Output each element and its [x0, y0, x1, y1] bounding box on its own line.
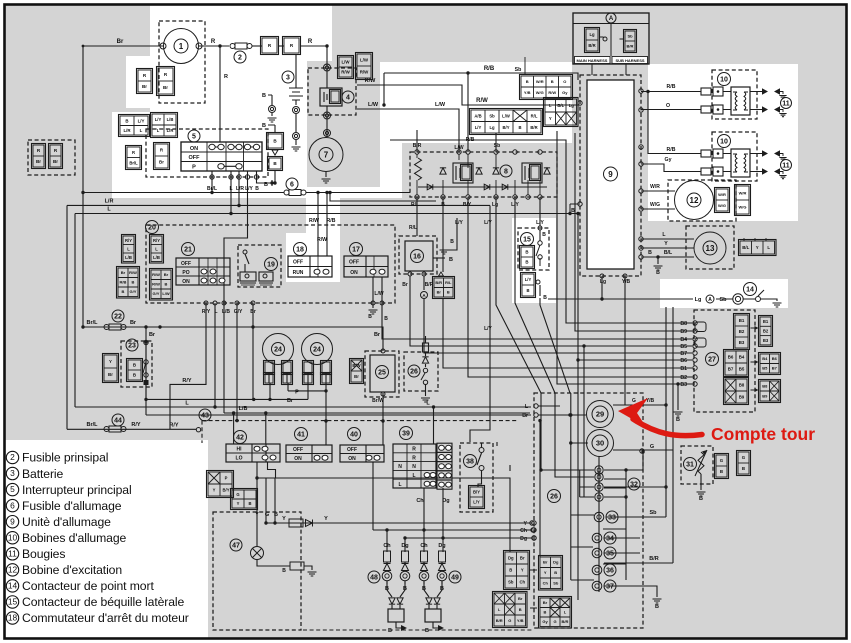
svg-text:L/Y: L/Y [455, 220, 463, 226]
svg-text:Bobine d'excitation: Bobine d'excitation [22, 563, 122, 577]
svg-text:5: 5 [10, 484, 15, 494]
svg-text:L/W: L/W [374, 291, 383, 297]
svg-text:OFF: OFF [347, 447, 357, 453]
svg-text:48: 48 [370, 575, 378, 582]
svg-text:L/Y: L/Y [473, 500, 480, 505]
svg-text:B: B [450, 239, 454, 245]
svg-text:B/L: B/L [664, 250, 673, 256]
svg-text:OFF: OFF [189, 155, 201, 161]
svg-text:B1: B1 [739, 318, 745, 323]
svg-text:Interrupteur principal: Interrupteur principal [22, 483, 132, 497]
svg-text:W/G: W/G [650, 202, 660, 208]
svg-text:L/B: L/B [167, 117, 174, 122]
svg-text:B4: B4 [762, 356, 768, 361]
svg-text:W/R: W/R [536, 79, 544, 84]
svg-text:Sb: Sb [515, 67, 522, 73]
svg-text:Lg: Lg [695, 297, 702, 303]
svg-text:R/W: R/W [476, 98, 488, 104]
svg-text:A: A [609, 16, 614, 22]
svg-text:Sb: Sb [553, 581, 559, 586]
svg-text:12: 12 [8, 564, 18, 574]
svg-text:B/R: B/R [649, 556, 659, 562]
svg-text:LO: LO [236, 456, 243, 462]
svg-text:Br/L: Br/L [87, 320, 99, 326]
svg-text:Y: Y [324, 516, 328, 522]
svg-text:Ch: Ch [383, 543, 391, 549]
svg-text:2: 2 [238, 55, 242, 62]
svg-text:B: B [262, 123, 266, 129]
svg-text:L/Y: L/Y [525, 277, 532, 282]
svg-text:Sb: Sb [649, 510, 657, 516]
svg-text:23: 23 [128, 343, 136, 350]
svg-text:B4: B4 [680, 337, 687, 343]
svg-text:Sb: Sb [627, 33, 633, 38]
svg-text:R/Y: R/Y [202, 309, 211, 315]
svg-text:B: B [543, 295, 547, 301]
svg-text:14: 14 [8, 581, 18, 591]
svg-text:R: R [412, 447, 416, 453]
svg-text:43: 43 [201, 413, 209, 420]
svg-text:Br: Br [121, 270, 126, 275]
svg-text:W/R: W/R [739, 190, 747, 195]
svg-text:Br/W: Br/W [372, 398, 384, 404]
svg-text:21: 21 [184, 247, 192, 254]
svg-text:B/R: B/R [496, 618, 503, 623]
svg-text:R/W: R/W [309, 218, 319, 224]
svg-text:B: B [125, 118, 128, 123]
svg-text:3: 3 [286, 75, 290, 82]
svg-text:R/B: R/B [327, 218, 336, 224]
svg-text:Dg: Dg [520, 536, 527, 542]
svg-text:G/Y: G/Y [234, 309, 243, 315]
svg-text:ON: ON [190, 146, 198, 152]
svg-text:Br: Br [163, 85, 168, 90]
svg-text:ON: ON [182, 279, 190, 285]
svg-text:36: 36 [606, 568, 614, 575]
svg-text:B9: B9 [680, 329, 687, 335]
svg-text:Y/B: Y/B [517, 618, 524, 623]
svg-text:B/L: B/L [557, 103, 564, 108]
svg-text:B5: B5 [739, 367, 745, 372]
svg-text:10: 10 [8, 532, 18, 542]
svg-text:Br: Br [164, 272, 169, 277]
svg-text:Lg: Lg [492, 202, 498, 208]
svg-text:L: L [140, 128, 143, 133]
svg-text:ON: ON [294, 456, 302, 462]
svg-text:B2: B2 [763, 328, 769, 333]
svg-text:L/R: L/R [236, 186, 244, 192]
svg-text:N: N [398, 464, 402, 470]
svg-text:R/B: R/B [667, 147, 676, 153]
svg-text:R/W: R/W [129, 270, 137, 275]
svg-text:ON: ON [348, 456, 356, 462]
svg-text:G: G [508, 618, 511, 623]
svg-text:9: 9 [10, 516, 15, 526]
svg-text:L/Y: L/Y [484, 220, 492, 226]
svg-text:38: 38 [466, 459, 474, 466]
svg-text:B: B [384, 316, 388, 322]
svg-text:R: R [308, 39, 313, 45]
svg-text:B/R: B/R [530, 125, 537, 130]
svg-text:W/G: W/G [536, 90, 544, 95]
svg-text:B/Y: B/Y [473, 490, 480, 495]
svg-text:Y: Y [549, 116, 552, 121]
svg-text:B6: B6 [772, 356, 778, 361]
svg-text:B: B [132, 280, 135, 285]
svg-text:Contacteur de point mort: Contacteur de point mort [22, 579, 154, 593]
svg-text:L/Y: L/Y [511, 202, 519, 208]
svg-text:Y: Y [282, 516, 286, 522]
svg-text:Br: Br [543, 600, 548, 605]
svg-text:Dg: Dg [508, 556, 514, 561]
svg-text:B: B [699, 496, 703, 502]
svg-text:Br: Br [53, 159, 58, 164]
svg-text:A: A [708, 297, 712, 303]
svg-text:Batterie: Batterie [22, 467, 64, 481]
svg-text:B: B [655, 604, 659, 610]
svg-text:R/L: R/L [531, 113, 538, 118]
svg-text:Compte tour: Compte tour [711, 424, 815, 444]
svg-text:Ch: Ch [543, 581, 549, 586]
svg-text:L: L [398, 482, 401, 488]
svg-text:B9: B9 [739, 395, 745, 400]
svg-text:B: B [388, 628, 392, 634]
svg-text:Dg: Dg [553, 560, 559, 565]
svg-text:Br: Br [520, 556, 525, 561]
svg-text:30: 30 [596, 439, 604, 448]
svg-text:B: B [742, 466, 745, 471]
svg-text:R: R [211, 39, 216, 45]
svg-text:Y: Y [544, 570, 547, 575]
svg-text:L/Y: L/Y [155, 117, 162, 122]
svg-text:G: G [742, 455, 746, 460]
svg-text:18: 18 [296, 247, 304, 254]
svg-text:Br: Br [142, 84, 147, 89]
svg-text:L/Y: L/Y [484, 326, 492, 332]
svg-text:11: 11 [8, 548, 17, 558]
svg-text:B: B [571, 208, 575, 214]
svg-text:Gy: Gy [562, 90, 568, 95]
svg-text:R/L: R/L [409, 225, 417, 231]
svg-text:Br: Br [543, 560, 548, 565]
svg-text:Ch: Ch [420, 543, 428, 549]
svg-text:Dg: Dg [438, 543, 445, 549]
svg-text:B/Y: B/Y [503, 125, 510, 130]
svg-text:B/R: B/R [627, 43, 634, 48]
svg-text:B2: B2 [680, 375, 687, 381]
svg-text:R/Y: R/Y [131, 422, 141, 428]
svg-text:B: B [165, 282, 168, 287]
svg-text:R/Y: R/Y [182, 378, 192, 384]
svg-text:Contacteur de béquille latèral: Contacteur de béquille latèrale [22, 595, 185, 609]
svg-text:3: 3 [10, 468, 15, 478]
svg-text:Y: Y [213, 488, 216, 493]
svg-text:L: L [767, 245, 770, 250]
svg-text:RUN: RUN [293, 270, 304, 276]
svg-text:47: 47 [232, 543, 240, 550]
svg-text:R/Y: R/Y [153, 238, 160, 243]
svg-text:Y: Y [237, 501, 240, 506]
svg-text:W/G: W/G [739, 204, 747, 209]
svg-text:Y/B: Y/B [524, 90, 531, 95]
svg-text:Y: Y [664, 241, 668, 247]
svg-text:26: 26 [410, 369, 418, 376]
svg-text:B8: B8 [762, 383, 768, 388]
svg-text:Gy: Gy [542, 619, 548, 624]
svg-text:MAIN HARNESS: MAIN HARNESS [577, 58, 608, 63]
svg-text:Sb: Sb [508, 580, 514, 585]
svg-text:L/W: L/W [360, 58, 369, 63]
svg-text:R/Y: R/Y [169, 423, 179, 429]
svg-text:Sb: Sb [719, 297, 727, 303]
svg-text:B: B [447, 290, 450, 295]
svg-text:Br: Br [374, 332, 381, 338]
svg-text:Dg: Dg [442, 498, 449, 504]
svg-text:15: 15 [8, 597, 18, 607]
svg-text:B9: B9 [762, 393, 768, 398]
svg-text:B: B [262, 93, 266, 99]
svg-text:15: 15 [523, 237, 531, 244]
svg-text:13: 13 [706, 244, 715, 253]
svg-text:L: L [229, 186, 232, 192]
svg-text:L/B: L/B [222, 309, 230, 315]
svg-text:B7: B7 [728, 367, 734, 372]
svg-text:L/R: L/R [167, 128, 174, 133]
svg-text:PO: PO [182, 270, 189, 276]
svg-text:Br/L: Br/L [207, 186, 217, 192]
svg-text:Br: Br [108, 372, 113, 377]
svg-text:Br: Br [36, 159, 41, 164]
svg-text:7: 7 [324, 150, 329, 159]
svg-text:R/W: R/W [548, 90, 556, 95]
svg-text:L: L [549, 103, 552, 108]
svg-text:B/R: B/R [588, 43, 595, 48]
svg-text:B: B [518, 125, 521, 130]
svg-text:P: P [225, 476, 228, 481]
svg-text:Br: Br [159, 160, 164, 165]
svg-text:12: 12 [690, 196, 699, 205]
svg-text:Dg: Dg [401, 543, 408, 549]
svg-text:B5: B5 [762, 366, 768, 371]
svg-text:L/R: L/R [105, 199, 114, 205]
svg-text:R/W: R/W [360, 70, 369, 75]
svg-text:B: B [133, 373, 136, 378]
svg-text:1: 1 [179, 42, 184, 51]
svg-text:B/R: B/R [435, 280, 442, 285]
svg-text:B: B [526, 288, 529, 293]
svg-text:Br: Br [130, 320, 137, 326]
svg-text:R/L: R/L [445, 280, 452, 285]
svg-text:Br: Br [354, 374, 359, 379]
svg-text:41: 41 [297, 432, 305, 439]
svg-text:R: R [132, 150, 135, 155]
svg-text:Y: Y [521, 568, 524, 573]
svg-text:B7: B7 [680, 351, 687, 357]
svg-text:B: B [525, 250, 528, 255]
svg-text:B: B [544, 610, 547, 615]
svg-text:22: 22 [114, 314, 122, 321]
svg-text:B: B [368, 314, 372, 320]
svg-text:B7: B7 [772, 366, 778, 371]
svg-text:B3: B3 [680, 382, 687, 388]
svg-text:A/B: A/B [474, 113, 481, 118]
svg-text:44: 44 [114, 418, 122, 425]
svg-text:L/R: L/R [123, 128, 131, 133]
svg-text:R: R [224, 74, 228, 80]
svg-text:O: O [563, 79, 566, 84]
svg-text:B: B [525, 260, 528, 265]
svg-text:Y: Y [109, 359, 112, 364]
svg-text:B: B [554, 570, 557, 575]
svg-text:B: B [441, 202, 445, 208]
svg-text:39: 39 [402, 431, 410, 438]
svg-text:R/B: R/B [120, 280, 127, 285]
svg-text:Br/L: Br/L [129, 160, 138, 165]
svg-text:Y: Y [756, 245, 759, 250]
svg-text:Ch: Ch [416, 498, 424, 504]
svg-text:B/Y: B/Y [223, 488, 230, 493]
svg-text:L/Y: L/Y [245, 186, 253, 192]
svg-text:G: G [265, 512, 269, 518]
svg-text:R/W: R/W [317, 237, 327, 243]
svg-text:G/Y: G/Y [153, 291, 160, 296]
svg-text:49: 49 [451, 575, 459, 582]
svg-text:Br: Br [250, 309, 256, 315]
svg-text:G: G [632, 398, 636, 404]
svg-text:Ch: Ch [519, 580, 525, 585]
svg-text:B/L: B/L [742, 245, 749, 250]
svg-text:R/W: R/W [365, 78, 377, 84]
svg-text:16: 16 [413, 254, 421, 261]
svg-text:R/W: R/W [152, 282, 160, 287]
svg-text:R: R [412, 455, 416, 461]
svg-text:L/B: L/B [153, 255, 160, 260]
svg-text:G/Y: G/Y [130, 289, 137, 294]
svg-text:B1: B1 [763, 319, 769, 324]
svg-text:Br: Br [287, 398, 294, 404]
svg-text:P: P [295, 390, 299, 396]
svg-text:L/W: L/W [162, 291, 170, 296]
svg-text:B: B [282, 568, 286, 574]
svg-text:11: 11 [782, 101, 790, 108]
svg-text:20: 20 [148, 225, 156, 232]
svg-text:33: 33 [608, 515, 616, 522]
svg-text:26: 26 [550, 494, 558, 501]
svg-text:B: B [551, 79, 554, 84]
svg-text:Bougies: Bougies [22, 547, 65, 561]
svg-text:B8: B8 [680, 321, 687, 327]
svg-text:Lg: Lg [589, 32, 595, 37]
svg-text:6: 6 [10, 500, 15, 510]
svg-text:B6: B6 [680, 358, 687, 364]
svg-text:L/W: L/W [341, 60, 350, 65]
svg-text:W/R: W/R [650, 184, 660, 190]
svg-text:B/Y: B/Y [463, 202, 472, 208]
svg-text:OFF: OFF [181, 261, 191, 267]
svg-text:G: G [720, 458, 724, 463]
svg-text:Br: Br [518, 596, 523, 601]
svg-text:Br/L: Br/L [87, 422, 99, 428]
svg-text:L/W: L/W [502, 113, 510, 118]
svg-text:Sb: Sb [489, 113, 495, 118]
svg-text:B: B [509, 568, 512, 573]
svg-text:B: B [519, 607, 522, 612]
svg-text:Y: Y [524, 521, 528, 527]
svg-text:L: L [155, 246, 158, 251]
svg-text:B5: B5 [680, 344, 687, 350]
svg-text:B/R: B/R [413, 143, 422, 149]
svg-text:B: B [542, 232, 546, 238]
svg-text:L: L [157, 128, 160, 133]
svg-text:37: 37 [606, 584, 614, 591]
svg-text:OFF: OFF [293, 260, 303, 266]
svg-text:L: L [127, 246, 130, 251]
svg-text:Unitè d'allumage: Unitè d'allumage [22, 515, 111, 529]
svg-text:Y/B: Y/B [622, 279, 631, 285]
svg-text:B: B [676, 417, 680, 423]
svg-text:G: G [553, 619, 556, 624]
svg-text:R/B: R/B [484, 66, 495, 72]
svg-text:Bobines d'allumage: Bobines d'allumage [22, 531, 127, 545]
svg-text:B: B [248, 501, 251, 506]
svg-text:B: B [648, 250, 652, 256]
svg-text:19: 19 [267, 262, 275, 269]
svg-text:L/B: L/B [239, 406, 248, 412]
svg-text:Fusible prinsipal: Fusible prinsipal [22, 451, 108, 465]
svg-text:OFF: OFF [293, 447, 303, 453]
svg-text:Gy: Gy [665, 157, 672, 163]
svg-text:5: 5 [192, 134, 196, 141]
svg-text:B: B [526, 79, 529, 84]
svg-text:R/W: R/W [152, 272, 160, 277]
svg-text:17: 17 [352, 247, 360, 254]
svg-text:Br: Br [522, 413, 528, 419]
svg-text:Br: Br [117, 39, 124, 45]
svg-text:6: 6 [290, 182, 294, 189]
svg-text:Y: Y [255, 512, 259, 518]
svg-text:Fusible d'allumage: Fusible d'allumage [22, 499, 122, 513]
svg-text:R/B: R/B [667, 84, 676, 90]
svg-text:B: B [425, 628, 429, 634]
svg-text:Commutateur d'arrêt du moteur: Commutateur d'arrêt du moteur [22, 611, 189, 625]
svg-text:B: B [720, 469, 723, 474]
svg-text:B4: B4 [739, 355, 745, 360]
svg-text:B6: B6 [728, 355, 734, 360]
svg-text:P: P [192, 165, 196, 171]
svg-text:31: 31 [686, 462, 694, 469]
svg-text:B1: B1 [680, 366, 687, 372]
svg-text:N: N [412, 464, 416, 470]
svg-text:L/W: L/W [435, 102, 446, 108]
svg-text:29: 29 [596, 410, 604, 419]
svg-text:SUB HARNESS: SUB HARNESS [615, 58, 644, 63]
svg-text:Ch: Ch [520, 528, 527, 534]
svg-text:4: 4 [346, 95, 350, 102]
svg-text:HI: HI [237, 447, 243, 453]
svg-text:11: 11 [782, 163, 790, 170]
svg-text:10: 10 [720, 77, 728, 84]
svg-text:8: 8 [504, 169, 508, 176]
svg-text:Lg: Lg [569, 103, 575, 108]
svg-text:9: 9 [608, 170, 613, 179]
svg-text:B3: B3 [739, 340, 745, 345]
svg-text:R/B: R/B [466, 137, 475, 143]
svg-text:B3: B3 [763, 338, 769, 343]
svg-text:R/L: R/L [411, 202, 419, 208]
svg-text:R/W: R/W [341, 70, 350, 75]
svg-text:18: 18 [8, 613, 18, 623]
svg-text:B: B [449, 257, 453, 263]
